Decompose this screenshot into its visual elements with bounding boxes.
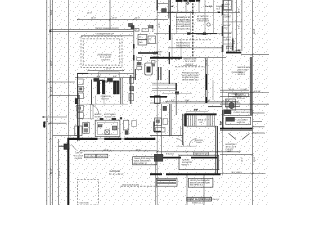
mudroom fixture outline — [145, 63, 152, 75]
kitchen sink — [98, 125, 102, 127]
deck board 4 — [152, 89, 176, 91]
bath wall fixture a — [130, 78, 134, 84]
svg-text:LINEN CLO: LINEN CLO — [237, 94, 246, 97]
svg-text:21'-0" x 20'-0": 21'-0" x 20'-0" — [109, 173, 124, 176]
bottom dim left — [80, 150, 157, 152]
deck board 1 — [152, 82, 176, 84]
svg-text:8'-2": 8'-2" — [238, 8, 241, 12]
svg-text:12'-4": 12'-4" — [50, 86, 53, 92]
wd stack a mark — [79, 88, 82, 91]
header block b — [203, 32, 206, 34]
svg-text:STAIR 16R DN: STAIR 16R DN — [102, 81, 118, 84]
top band tick e — [213, 0, 215, 34]
porch post — [75, 99, 78, 104]
drive junction tick — [49, 30, 51, 32]
house left wall a — [77, 73, 79, 140]
upper wall a — [168, 0, 170, 19]
svg-text:CARPET: CARPET — [224, 16, 232, 19]
front wall seg b — [191, 157, 218, 159]
top interior dark seg — [168, 11, 195, 13]
right room line c — [220, 96, 250, 98]
left dim vertical 4 — [58, 139, 60, 205]
svg-text:NOTES SHEET A0.2: NOTES SHEET A0.2 — [182, 78, 199, 81]
ac pad box b — [138, 40, 147, 45]
top band tick b — [185, 0, 187, 12]
svg-text:7'-10: 7'-10 — [240, 88, 246, 91]
fixture porte corner a — [131, 26, 134, 29]
stair lower wall thin — [180, 126, 182, 136]
svg-text:11'-6": 11'-6" — [185, 99, 190, 102]
svg-text:CLG 10'-0": CLG 10'-0" — [186, 63, 194, 66]
beam dashed thick — [192, 0, 194, 58]
arrow line left — [42, 116, 67, 118]
closet col sep 3 — [223, 32, 232, 34]
left room mark b — [163, 119, 168, 125]
svg-text:10'-0": 10'-0" — [158, 23, 161, 28]
chevron left — [229, 134, 236, 140]
kitchen door arc — [89, 104, 99, 114]
dim dark seg right a — [208, 106, 222, 108]
svg-text:CLG 9': CLG 9' — [153, 55, 160, 58]
porch top line — [77, 72, 134, 74]
wd upper box — [77, 79, 83, 85]
col line — [241, 0, 243, 51]
closet col line2 — [236, 0, 238, 52]
top band tick a — [177, 0, 179, 12]
svg-text:24'-6": 24'-6" — [50, 9, 53, 15]
nook cluster dark — [125, 131, 128, 135]
svg-text:22'-4" VERIFY: 22'-4" VERIFY — [232, 171, 243, 174]
svg-text:CLG AND WALLS: CLG AND WALLS — [197, 20, 209, 23]
walls dark — [43, 0, 253, 205]
master wall mid a — [205, 58, 207, 103]
svg-text:SHAFT: SHAFT — [182, 163, 190, 166]
chase wall a — [157, 67, 159, 80]
bath wall line b — [131, 75, 133, 104]
svg-text:19'-8": 19'-8" — [75, 151, 83, 154]
patio corner box — [155, 96, 161, 104]
chase wall b — [160, 67, 162, 80]
stair wall block 2 — [102, 81, 105, 94]
right wall thin — [221, 0, 223, 175]
elevator box — [179, 155, 219, 170]
dashed construction lines — [77, 36, 211, 205]
top wall seg — [156, 0, 158, 11]
future game room dashed rect — [81, 36, 122, 67]
master top wall — [150, 57, 182, 59]
right ext 127 — [253, 126, 265, 128]
hall wall seg ext — [168, 52, 170, 64]
counter dark row c — [120, 117, 122, 119]
wic fixture right a — [226, 99, 236, 107]
left ext line a — [47, 81, 75, 83]
counter dark row a — [100, 118, 104, 120]
house left wall dark seg — [77, 126, 79, 140]
svg-text:8'-0" CLG: 8'-0" CLG — [166, 153, 175, 156]
tick box eq — [163, 106, 167, 110]
entry door note box — [194, 152, 209, 155]
hall boxes b — [77, 113, 83, 119]
fixture porte corner b — [135, 29, 139, 32]
garage front wall a — [150, 173, 162, 175]
left fixture text stack box a — [137, 58, 142, 61]
garage door track box — [156, 178, 177, 186]
track bar a — [157, 179, 176, 181]
pantry cluster mark b — [84, 128, 88, 132]
svg-text:17'-2": 17'-2" — [106, 68, 111, 71]
dim dark seg right b — [225, 106, 240, 108]
garage top wall thick seg c — [124, 138, 155, 140]
pantry wall b — [92, 104, 94, 119]
left top arrow — [170, 6, 174, 8]
upper mid verticals b — [190, 12, 192, 34]
hall wall seg ext b — [168, 70, 170, 84]
left col dark seg — [153, 122, 155, 132]
stair wall block 4 — [117, 81, 120, 94]
left house line — [67, 0, 69, 140]
garage top wall thick seg b — [104, 138, 121, 140]
stair wall block 3 — [113, 81, 116, 94]
attic arrow — [236, 49, 241, 51]
left room mark — [156, 128, 166, 133]
left rooms wall x170 — [169, 104, 171, 136]
master bath fixtures b — [229, 93, 236, 96]
pantry wall a — [90, 104, 92, 119]
dim tick block a — [94, 78, 99, 81]
stairs hatch — [185, 108, 223, 126]
svg-text:6'-6": 6'-6" — [238, 25, 241, 29]
wh note box — [133, 157, 157, 165]
left mid ext — [53, 135, 77, 137]
dim tick block b — [107, 78, 112, 81]
flush beam dashed — [176, 39, 211, 41]
bottom dim right — [157, 151, 240, 153]
island faucet cross a — [105, 130, 109, 134]
svg-text:15'-4" x 16'-8": 15'-4" x 16'-8" — [185, 60, 196, 63]
foyer right wall b — [216, 126, 218, 175]
kitchen wall pair b — [121, 78, 123, 104]
hall thin vert a — [95, 96, 97, 105]
island faucet cross b — [105, 130, 109, 134]
pantry cluster — [83, 122, 89, 133]
right wall dark seg — [232, 38, 234, 50]
master wall mid b — [206, 58, 208, 103]
laundry top bar — [138, 52, 158, 54]
stairs dim line — [186, 110, 208, 112]
svg-text:9'-2": 9'-2" — [171, 99, 175, 102]
svg-text:CONCRETE DRIVEWAY SLOPE TO ST: CONCRETE DRIVEWAY SLOPE TO ST — [95, 27, 119, 30]
chevron right — [242, 134, 250, 140]
right ext 113 — [253, 112, 265, 114]
svg-text:16'-0": 16'-0" — [112, 16, 117, 19]
toilet enclosure — [227, 101, 235, 110]
left front wall dark seg b — [133, 55, 135, 61]
svg-text:SHEET A-1.1: SHEET A-1.1 — [192, 201, 203, 204]
garage left jamb — [155, 157, 157, 205]
stairs bottom edge — [185, 125, 217, 127]
svg-text:4'-0: 4'-0 — [168, 58, 173, 61]
svg-text:SHLV: SHLV — [224, 5, 230, 8]
foyer right wall a — [215, 126, 217, 175]
left rooms wall x171 — [170, 104, 172, 136]
svg-text:21'-4": 21'-4" — [104, 148, 109, 151]
entry door arc right — [189, 139, 196, 147]
left dim vertical 3 — [52, 0, 54, 205]
svg-text:COVERED PORCH: COVERED PORCH — [232, 71, 243, 74]
hall bar dark — [226, 52, 241, 54]
closet col sep 2 — [223, 21, 232, 23]
svg-text:18'-0": 18'-0" — [50, 60, 53, 66]
svg-text:ISLAND CTR: ISLAND CTR — [104, 115, 115, 118]
left fixture text stack box b — [137, 62, 142, 65]
left dim vertical 1 — [46, 0, 48, 205]
svg-text:20'-0": 20'-0" — [253, 156, 256, 162]
interior dim string a — [165, 101, 238, 103]
svg-text:6'-8": 6'-8" — [207, 99, 211, 102]
driveway edge double a — [50, 29, 134, 31]
deck board 2 — [152, 84, 176, 86]
patio bar dark — [150, 96, 167, 98]
svg-text:TILE FLR: TILE FLR — [101, 97, 109, 100]
svg-text:9'-8": 9'-8" — [46, 117, 49, 122]
mudroom fixture inner — [147, 67, 151, 73]
diamond marker — [187, 2, 189, 4]
svg-text:16 R @ 7.5": 16 R @ 7.5" — [198, 119, 207, 122]
garage top wall door thin — [98, 138, 105, 140]
svg-text:SEE DETAIL 3/A5.1: SEE DETAIL 3/A5.1 — [176, 28, 191, 31]
closet row marks — [224, 110, 231, 113]
svg-text:3068 ENTRY DR: 3068 ENTRY DR — [195, 153, 209, 156]
svg-text:5'-8: 5'-8 — [175, 58, 180, 61]
svg-text:FIRST FLOOR PLAN: FIRST FLOOR PLAN — [188, 198, 211, 201]
svg-text:15'-8: 15'-8 — [205, 60, 208, 66]
entry door arc left — [176, 139, 183, 147]
laundry boxes right b — [152, 64, 156, 67]
garage door note box — [188, 178, 213, 187]
shower corner top right — [224, 1, 232, 10]
top band tick c — [198, 0, 200, 12]
svg-text:@ 16" OC: @ 16" OC — [226, 47, 232, 50]
front wall seg a — [155, 157, 181, 159]
title box — [187, 197, 212, 201]
thin line x213 — [212, 80, 214, 100]
kitchenette marks — [226, 118, 235, 121]
right bottom ext — [220, 173, 266, 175]
porte cluster extra b — [142, 29, 149, 32]
closet col left line — [222, 0, 224, 52]
svg-text:GAS METER: GAS METER — [97, 155, 107, 158]
dimension and extension lines (thin gray) — [42, 0, 269, 205]
closet ext line — [232, 21, 242, 23]
toilet right — [229, 102, 234, 108]
svg-text:CONC PATIO 2% SLOPE: CONC PATIO 2% SLOPE — [122, 184, 140, 187]
upper wall b — [169, 0, 171, 40]
svg-text:5'-2 x 8': 5'-2 x 8' — [237, 97, 246, 100]
wd stack a — [78, 86, 84, 91]
upper mid verticals a — [176, 12, 178, 34]
left dim vertical 2 — [49, 0, 51, 205]
top interior line — [157, 11, 240, 13]
porte cluster extra a — [129, 24, 133, 27]
attic arrow head — [239, 49, 241, 51]
laundry boxes right a — [152, 61, 156, 64]
right room line b — [220, 92, 269, 94]
upper thin line — [162, 93, 192, 95]
ac pad box a — [138, 35, 147, 40]
svg-text:CLOSET SHELVING: CLOSET SHELVING — [234, 111, 250, 114]
svg-text:BASE CAB: BASE CAB — [237, 121, 246, 124]
hall verticals y33-58 a — [171, 34, 173, 58]
svg-text:OH DOOR: OH DOOR — [75, 157, 83, 160]
right wall dark seg top b — [221, 26, 223, 36]
svg-text:18'-6": 18'-6" — [136, 148, 141, 151]
master bath fixtures a — [236, 93, 248, 96]
kitchen island sink — [105, 130, 110, 135]
closet col sep 1 — [223, 10, 232, 12]
right wall dark seg top c — [221, 45, 223, 52]
interior dim string b — [150, 102, 240, 104]
under bar line — [182, 57, 226, 59]
svg-text:24'-0": 24'-0" — [135, 16, 140, 19]
svg-text:WD SHLV: WD SHLV — [95, 115, 102, 118]
right ext 133 — [253, 132, 265, 134]
mid dark seg a — [188, 33, 203, 35]
top small dark box — [162, 9, 167, 13]
patio dashed rect — [77, 180, 98, 206]
kitchen wall pair a — [120, 78, 122, 104]
stairwell rect above — [99, 72, 120, 81]
hall boxes a mark — [78, 107, 81, 110]
driveway centre vertical — [109, 0, 111, 30]
garage jamb 1 — [186, 175, 188, 205]
dimension ticks — [49, 18, 253, 175]
svg-text:21'-0": 21'-0" — [50, 168, 53, 174]
patio wall x176 — [175, 83, 177, 115]
left rooms divider h — [154, 131, 162, 133]
stair left wall — [182, 114, 184, 145]
top seg c — [158, 3, 168, 5]
left col room wall x161 — [160, 104, 162, 157]
svg-text:SCALE 1/4": SCALE 1/4" — [212, 198, 219, 201]
svg-text:PAD: PAD — [139, 41, 143, 44]
bed2 top wall thick — [220, 128, 252, 130]
svg-text:24'-0": 24'-0" — [91, 16, 96, 19]
right wall dark seg top a — [221, 4, 223, 15]
porte cluster extra c — [149, 26, 154, 29]
ac pad box c — [148, 36, 156, 44]
foyer arc chord — [176, 145, 196, 147]
top dim line — [77, 18, 168, 20]
patio slope dashed line — [121, 185, 158, 187]
apron line — [81, 35, 133, 37]
top clipped dark row — [176, 0, 183, 2]
right dark seg on line — [218, 11, 220, 13]
svg-text:20'-4": 20'-4" — [58, 170, 61, 176]
garage diag mark — [71, 144, 76, 150]
master label underline — [183, 65, 197, 67]
left arrow head — [42, 116, 44, 118]
master right wall b — [251, 57, 253, 115]
counter dark row b — [112, 118, 117, 120]
svg-text:W/ BROOM FINISH TYP: W/ BROOM FINISH TYP — [97, 32, 114, 35]
left arrow ext — [48, 122, 67, 124]
kitchen mark — [112, 126, 116, 130]
track bar b — [157, 182, 176, 184]
kitchen top line — [79, 118, 94, 120]
svg-text:SEE NOTE 12: SEE NOTE 12 — [134, 162, 148, 165]
pantry cluster mark a — [84, 123, 88, 127]
closet col sep 4 — [223, 43, 232, 45]
svg-text:GARAGE: GARAGE — [110, 170, 121, 173]
right wall thin upper — [232, 0, 234, 38]
left room box a — [155, 118, 162, 126]
top band tick d — [204, 0, 206, 34]
svg-text:5'-2: 5'-2 — [229, 88, 234, 91]
hall verticals y33-58 b — [180, 40, 182, 58]
svg-text:16'-0": 16'-0" — [87, 11, 92, 14]
closet col line — [227, 0, 229, 52]
left rooms line h2 — [150, 135, 183, 137]
bed2 top wall thin — [220, 130, 252, 132]
deck board 3 — [152, 88, 176, 90]
upper small dark mark — [175, 92, 179, 95]
nook cluster b — [124, 120, 129, 130]
kitchen island — [95, 120, 120, 136]
bed2 left wall — [222, 110, 224, 128]
porch edge dark seg — [78, 72, 89, 74]
svg-text:ELEC PANEL: ELEC PANEL — [85, 155, 95, 158]
right room line d — [220, 103, 269, 105]
patio wall dark seg — [175, 83, 177, 90]
panel box b — [97, 154, 108, 158]
svg-text:CARPET: CARPET — [226, 150, 234, 153]
upper wall dark seg — [169, 25, 171, 40]
kitchenette box — [226, 117, 251, 124]
kitchen inner counter — [97, 122, 117, 134]
svg-text:SEE SPEC 8.2: SEE SPEC 8.2 — [190, 184, 204, 187]
mid line — [168, 47, 222, 49]
svg-text:3'-2: 3'-2 — [43, 122, 46, 127]
driveway edge double b — [50, 30, 134, 32]
svg-text:PORCH: PORCH — [152, 25, 155, 32]
master wall dark seg b — [205, 97, 207, 103]
stairs left cap — [184, 114, 186, 126]
upper hall line — [154, 33, 231, 35]
attic note circle — [207, 23, 210, 26]
stairs top wall — [185, 113, 217, 115]
entry fixture — [154, 154, 163, 161]
header block a — [187, 32, 191, 34]
svg-text:ATTIC ACCESS: ATTIC ACCESS — [227, 50, 236, 53]
bath wall line — [129, 75, 131, 104]
hall thin vert b — [103, 96, 105, 105]
left front wall — [133, 25, 135, 80]
garage top wall thick seg a — [67, 138, 97, 140]
svg-text:6'-4": 6'-4" — [97, 75, 101, 78]
svg-text:FLUSH BM ABV: FLUSH BM ABV — [196, 33, 209, 36]
stair connector dark — [97, 79, 105, 81]
wd stack b — [78, 93, 83, 99]
fixtures — [42, 1, 252, 202]
hall line h104 — [79, 103, 128, 105]
bath wall fixture c — [129, 94, 134, 101]
stair left wall seg — [91, 80, 93, 105]
svg-text:5'-8": 5'-8" — [113, 75, 117, 78]
svg-text:4'-0": 4'-0" — [194, 108, 198, 111]
svg-text:5'-0": 5'-0" — [233, 40, 236, 44]
right dim vertical — [252, 0, 254, 205]
right room line a — [220, 89, 249, 91]
